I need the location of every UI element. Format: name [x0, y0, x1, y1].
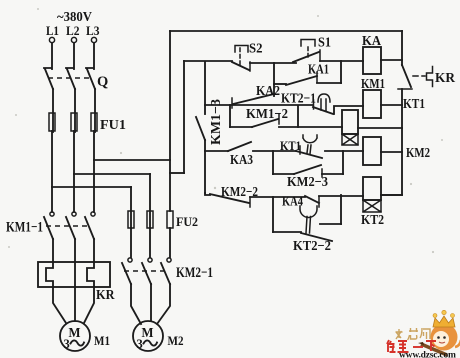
svg-text:KA2: KA2: [256, 84, 280, 99]
KM2-3 branch vertical: [272, 151, 274, 174]
motor M1 lead mid: [74, 287, 76, 321]
KT1 delay box with X: [342, 134, 358, 145]
KM2-2 row corner from KM1-3: [205, 193, 210, 195]
KT1 out wire to KM2 coil: [325, 150, 363, 152]
contactor KM2-1 pole2 circle: [148, 258, 152, 262]
contactor KM1-1 pole2 circle: [72, 212, 76, 216]
KT1 contact fixed tick: [299, 146, 301, 154]
fuse FU2 pole2: [147, 211, 153, 228]
watermark text 找芯片: [396, 328, 431, 340]
KT2 delay box with X: [363, 200, 381, 212]
branch KM1-3 vertical lower: [204, 140, 206, 193]
contact KA4 blade: [305, 196, 319, 203]
contactor KM2-1 pole3 circle: [167, 258, 171, 262]
right rail lower: [381, 89, 402, 195]
svg-text:KM1−2: KM1−2: [246, 107, 288, 122]
wire KT1 coil to right rail: [358, 127, 402, 129]
contact KT2-1 blade: [313, 107, 333, 114]
switch Q pole 2: [66, 68, 75, 89]
wire KM1-1 pole2 to KR: [74, 239, 76, 262]
KT2-2 delay cup: [300, 206, 317, 218]
button S2 blade: [232, 62, 249, 70]
KA3 row from KM1-3: [205, 150, 228, 152]
KA3 out wire: [253, 150, 296, 152]
KR heater element pole3: [87, 262, 94, 287]
svg-text:KM1: KM1: [361, 77, 385, 92]
svg-text:~380V: ~380V: [57, 9, 92, 24]
KA4 out wire to KT2 coil: [319, 195, 363, 197]
svg-text:KM1−3: KM1−3: [209, 99, 224, 145]
switch Q pole 1: [44, 68, 53, 89]
svg-text:KA3: KA3: [230, 153, 253, 168]
watermark text 维库一下: [387, 340, 436, 352]
svg-text:FU1: FU1: [100, 118, 126, 133]
wire KT2 coil to right rail: [381, 194, 402, 196]
wire L2 down to Q: [73, 43, 75, 69]
KA1 row wire left: [274, 83, 286, 85]
KM2-3 row wire: [273, 173, 294, 175]
wire KM1-1 pole1 to KR: [52, 239, 54, 262]
wire KM1-1 pole3 to KR: [93, 239, 95, 262]
wire KA coil to right rail: [381, 59, 402, 61]
svg-text:L1: L1: [46, 23, 59, 38]
bus L1 to right: [52, 186, 131, 188]
wire Q to FU1 pole1: [52, 89, 54, 132]
button S2 cap: [235, 46, 248, 53]
thermal relay KR box: [38, 262, 110, 287]
wire FU1 pole1 down to KM1-1: [51, 131, 53, 212]
motor M2 circle: [133, 321, 163, 351]
wire L1 down to Q: [51, 43, 53, 69]
KM1-2 row wire left: [230, 126, 252, 128]
svg-text:M: M: [69, 325, 81, 340]
fuse FU2 pole1: [128, 211, 134, 228]
contact KM1-2 blade: [252, 119, 278, 127]
motor M2 lead right: [157, 284, 170, 324]
svg-text:3: 3: [137, 337, 143, 351]
KM2-3 rejoin vertical: [342, 151, 344, 174]
KA1/S1 rejoin vertical: [340, 61, 342, 83]
svg-text:M: M: [142, 325, 154, 340]
timer coil KT2: [363, 177, 381, 200]
KM2-1 blade pole1: [122, 263, 131, 284]
KT2-2 cup stems: [306, 217, 311, 234]
svg-text:L3: L3: [86, 23, 100, 38]
motor M2 lead left: [131, 284, 141, 324]
button S2 plunger dashes: [239, 48, 241, 66]
KT2-1 umbrella stems: [321, 99, 326, 111]
coil KM2: [363, 137, 381, 165]
motor M1 lead left: [53, 287, 66, 323]
svg-text:KA: KA: [362, 34, 382, 49]
KT2-1 out corner to KM1 coil: [334, 106, 363, 114]
branch KM1-3 vertical upper: [204, 62, 206, 114]
motor M1 lead right: [84, 287, 94, 323]
wire Q to FU1 pole3: [94, 89, 96, 132]
contact KT2-2 blade: [301, 233, 332, 241]
svg-text:KT1: KT1: [403, 97, 425, 112]
S2 fixed terminal tick: [249, 62, 251, 71]
KT2-2 bottom wire: [273, 231, 301, 233]
contact KA1 blade: [286, 76, 317, 85]
jog from left rail to inner rail: [170, 172, 184, 174]
wire S2 to S1: [250, 62, 296, 64]
terminal circle L3: [91, 37, 96, 42]
contact KM2-3 blade: [294, 165, 321, 174]
wire FU1 pole2 down to KM1-1: [73, 131, 75, 212]
KM2-2 fixed tick: [249, 197, 251, 207]
KM1-1 blade pole3: [85, 217, 94, 239]
svg-text:3: 3: [64, 337, 70, 351]
watermark mascot body: [418, 310, 460, 355]
switch Q linkage dashes: [48, 77, 92, 79]
fuse FU1 pole1: [49, 113, 55, 131]
wire FU2 pole3 to KM2-1: [169, 228, 171, 257]
button S1 blade: [293, 52, 319, 62]
S1 fixed terminal tick: [319, 50, 321, 61]
KM2-1 blade pole2: [142, 263, 151, 284]
KM2-1 blade pole3: [161, 263, 170, 284]
contact KM2-2 blade: [210, 194, 249, 203]
fuse FU1 pole2: [71, 113, 77, 131]
terminal circle L1: [49, 37, 54, 42]
fuse FU2 pole3: [167, 211, 173, 228]
KM1-2 fixed tick: [278, 114, 280, 124]
svg-text:KM1−1: KM1−1: [6, 220, 43, 236]
contact KM1-3 blade: [196, 117, 205, 140]
KT2-2 fixed side corner: [320, 223, 341, 225]
KM1-2 out wire: [279, 126, 342, 128]
svg-text:KM2−2: KM2−2: [221, 185, 258, 200]
KA1 fixed tick: [316, 72, 318, 82]
KR middle wire pole2: [74, 262, 76, 287]
KR release bracket: [427, 67, 433, 87]
contactor KM2-1 pole1 circle: [128, 258, 132, 262]
KM2-1 linkage dashes: [124, 270, 166, 272]
KA2 fixed tick: [231, 98, 233, 108]
wire L3 down to Q: [93, 43, 95, 69]
button S1 plunger dashes: [307, 47, 309, 60]
KM1-1 linkage dashes: [46, 225, 90, 227]
svg-text:KT1: KT1: [280, 138, 301, 153]
wire Q to FU1 pole2: [74, 89, 76, 132]
contact KA2 blade: [233, 94, 274, 104]
KA4/KT2-2 branch down vertical: [272, 197, 274, 232]
KM2-3 fixed tick: [321, 169, 323, 177]
svg-text:KM2−1: KM2−1: [176, 265, 213, 281]
KA4 fixed tick: [318, 197, 320, 207]
svg-text:KT2: KT2: [361, 213, 384, 228]
svg-text:KT2−2: KT2−2: [293, 239, 331, 254]
button S1 cap: [301, 40, 315, 47]
KT2-2 rejoin vertical: [340, 195, 342, 224]
right rail upper: [401, 31, 403, 65]
inner left rail: [183, 61, 185, 173]
tie vertical rows KT2-1/KM1-2: [297, 106, 299, 127]
svg-text:KR: KR: [435, 71, 456, 86]
KM1-1 blade pole1: [44, 217, 53, 239]
bus L3 to right: [94, 159, 170, 161]
svg-text:KT2−1: KT2−1: [281, 92, 316, 107]
control top rail: [170, 30, 402, 32]
svg-text:KA1: KA1: [308, 63, 329, 78]
svg-text:Q: Q: [97, 74, 108, 90]
coil KA: [363, 47, 381, 74]
motor M1 circle: [60, 321, 90, 351]
FU2 drop wire phase1: [130, 187, 132, 228]
S2 row wire: [184, 60, 232, 62]
KA1 branch left vertical: [273, 63, 275, 96]
KM1-1 blade pole2: [66, 217, 75, 239]
svg-text:FU2: FU2: [176, 214, 198, 229]
KA2/KM1-2 tie vertical: [229, 105, 231, 127]
contact KT1 delayed blade: [296, 151, 322, 158]
KT1 delay cup: [303, 135, 317, 143]
svg-text:KR: KR: [96, 288, 115, 303]
coil KM1: [363, 90, 381, 118]
KT2-1 fixed tick: [313, 100, 315, 109]
S1 out wire to KA coil: [320, 60, 363, 62]
KR lower terminal tick: [398, 88, 412, 90]
control left rail: [169, 31, 171, 211]
wire FU2 pole2 to KM2-1: [149, 228, 151, 257]
terminal circle L2: [71, 37, 76, 42]
svg-text:M2: M2: [168, 333, 184, 348]
wire KM2 coil to right rail: [381, 151, 402, 153]
KA1 wire to S1 node: [317, 82, 341, 84]
KA2 out wire to KM1-3 branch: [205, 104, 313, 106]
thermal contact KR blade: [402, 65, 411, 87]
svg-text:www.dzsc.com: www.dzsc.com: [399, 351, 456, 358]
timer coil KT1: [342, 110, 358, 134]
wire FU2 pole1 to KM2-1: [130, 228, 132, 257]
motor M2 lead mid: [150, 284, 152, 321]
contactor KM1-1 pole1 circle: [50, 212, 54, 216]
contact KA3 blade: [228, 142, 251, 151]
wire FU1 pole3 down to KM1-1: [93, 131, 95, 212]
svg-text:L2: L2: [66, 23, 80, 38]
KR trip dashes: [413, 75, 425, 77]
switch Q pole 3: [86, 68, 95, 89]
svg-text:M1: M1: [94, 333, 110, 348]
bus L2 to right: [74, 173, 150, 175]
FU2 drop wire phase2: [149, 174, 151, 228]
svg-text:S1: S1: [318, 36, 331, 51]
KR heater element pole1: [46, 262, 53, 287]
wire KM1 coil to right rail: [381, 104, 402, 106]
contactor KM1-1 pole3 circle: [91, 212, 95, 216]
KT1 cup stems: [307, 145, 311, 154]
svg-text:KM2−3: KM2−3: [287, 175, 328, 190]
svg-text:S2: S2: [249, 42, 263, 57]
KT2-1 delay umbrella arc: [318, 94, 330, 102]
svg-text:KM2: KM2: [406, 146, 430, 161]
KM2-3 out wire: [322, 173, 343, 175]
KM2-2 out wire: [250, 196, 305, 198]
fuse FU1 pole3: [91, 113, 97, 131]
